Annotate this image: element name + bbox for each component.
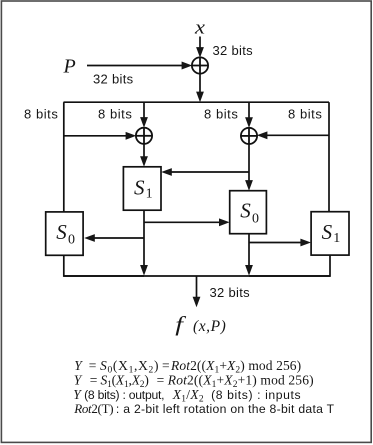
svg-text:(x,P): (x,P)	[193, 318, 226, 335]
equation 1: Y = S0(X1,X2) = Rot2((X1+X2) mod 256)	[74, 358, 301, 376]
svg-text:0: 0	[252, 211, 259, 226]
label 8 bits (byte 2)	[98, 107, 132, 122]
svg-text:32 bits: 32 bits	[213, 43, 254, 58]
svg-text:32 bits: 32 bits	[93, 71, 134, 86]
svg-text:S: S	[56, 220, 67, 244]
equation 2: Y = S1(X1,X2) = Rot2((X1+X2+1) mod 256)	[74, 372, 314, 390]
svg-text:x: x	[194, 17, 206, 38]
node P	[63, 56, 76, 78]
label 8 bits (byte 3)	[204, 107, 238, 122]
s-box S0 (left)	[46, 212, 83, 255]
equation 3: Y (8 bits) : output, X1/X2 (8 bits) : inputs	[73, 387, 301, 405]
svg-text:8 bits: 8 bits	[24, 107, 58, 122]
svg-text:Rot2(T): a 2-bit left rotation: Rot2(T): a 2-bit left rotation on the 8-…	[73, 401, 334, 416]
svg-text:1: 1	[146, 186, 153, 201]
wire XOR2 to S1a	[140, 144, 148, 167]
svg-text:0: 0	[68, 233, 75, 248]
svg-text:P: P	[63, 56, 76, 78]
wire P to XOR1	[87, 62, 192, 70]
wire S0b output down to collector	[245, 234, 253, 276]
svg-text:1: 1	[333, 231, 340, 246]
collector line (bottom)	[64, 275, 330, 277]
wire S1a branch right to S0b	[144, 218, 230, 226]
xor gate U3 (right)	[241, 128, 257, 144]
wire S1a output down to collector	[140, 210, 148, 275]
label 32 bits (x input)	[213, 43, 254, 58]
wire XOR3 branch to S1a right side	[161, 168, 249, 176]
wire XOR1 to bus	[196, 73, 204, 102]
wire bus to XOR2	[140, 102, 148, 128]
s-box S0 (middle right)	[230, 191, 267, 234]
wire bus to XOR3	[245, 102, 253, 128]
wire S0a output down to collector	[64, 255, 144, 276]
svg-text:8 bits: 8 bits	[204, 107, 238, 122]
s-box S1 (upper middle)	[123, 167, 161, 210]
node x	[194, 17, 206, 38]
wire byte1 to XOR2	[64, 132, 136, 140]
label 32 bits (output)	[210, 285, 251, 300]
svg-text:32 bits: 32 bits	[210, 285, 251, 300]
svg-text:S: S	[240, 199, 251, 223]
wire S0b branch right to S1b	[249, 239, 311, 247]
equation 4: Rot2(T) : a 2-bit left rotation on the 8-bit data T	[73, 401, 334, 416]
wire XOR3 down	[245, 144, 253, 191]
label 8 bits (byte 4)	[288, 107, 322, 122]
svg-text:8 bits: 8 bits	[288, 107, 322, 122]
wire byte1 (left vertical)	[63, 102, 65, 212]
wire x to XOR1	[196, 37, 204, 58]
xor gate U1 (top)	[192, 57, 208, 73]
xor gate U2 (left)	[136, 128, 152, 144]
wire S1a branch left to S0a	[84, 234, 144, 242]
wire byte4 to XOR3	[257, 131, 329, 139]
svg-text:S: S	[134, 176, 145, 200]
svg-text:f: f	[175, 313, 186, 336]
label 8 bits (byte 1)	[24, 107, 58, 122]
svg-text:8 bits: 8 bits	[98, 107, 132, 122]
s-box S1 (right)	[311, 212, 349, 255]
node f(x,P) output label	[175, 313, 226, 336]
wire output f	[193, 276, 201, 307]
label 32 bits (P input)	[93, 71, 134, 86]
wire byte4 (right vertical)	[328, 102, 330, 212]
bus line (32-bit split)	[64, 101, 330, 103]
wire S1b output down to collector	[249, 255, 330, 276]
svg-text:S: S	[322, 220, 333, 244]
